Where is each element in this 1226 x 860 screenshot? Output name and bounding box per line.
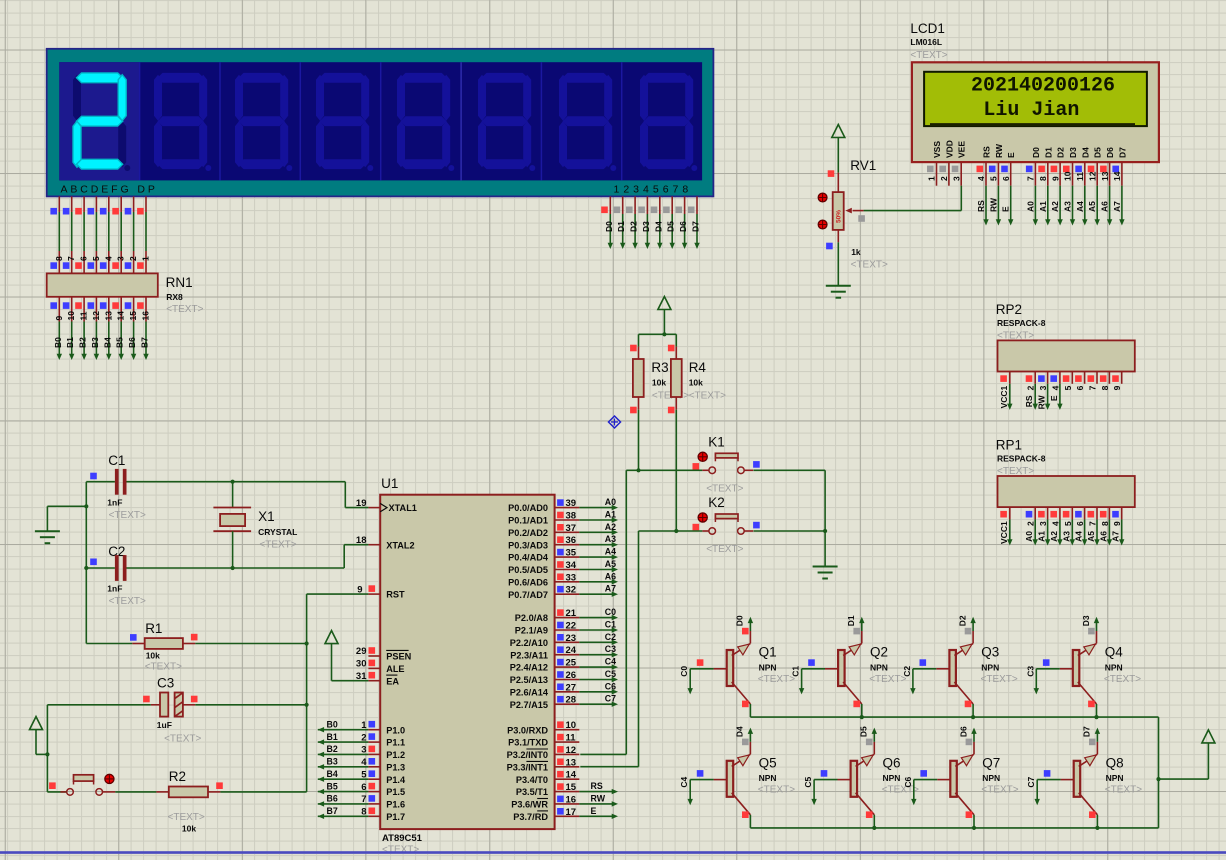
- svg-text:D2: D2: [1056, 147, 1066, 158]
- U1 pin 25 P2.4/A12 wire to net C4: [555, 666, 580, 668]
- wire riser to U1 pin 12 (P3.2/INT0): [625, 470, 627, 754]
- svg-text:RV1: RV1: [850, 158, 876, 173]
- power terminal above R3/R4: [658, 297, 671, 310]
- svg-text:C6: C6: [903, 776, 913, 787]
- svg-text:4: 4: [103, 256, 113, 261]
- Q5 emitter: [732, 793, 751, 815]
- wire K2 right joins ground rail: [754, 530, 826, 532]
- svg-text:B1: B1: [65, 337, 75, 348]
- emitter rail Q5-Q8: [750, 827, 1158, 829]
- svg-text:A1: A1: [1037, 531, 1047, 542]
- svg-text:PSEN: PSEN: [386, 652, 411, 662]
- display data pin D6 wire: [684, 196, 686, 214]
- U1 pin 12 P3.2/INT0: [555, 753, 580, 755]
- sheet border bottom: [0, 851, 1226, 854]
- svg-text:R1: R1: [145, 621, 162, 636]
- svg-text:A3: A3: [605, 534, 616, 544]
- svg-text:A3: A3: [1063, 201, 1073, 212]
- U1 pin 31 EA: [368, 680, 380, 682]
- svg-text:<TEXT>: <TEXT>: [981, 785, 1018, 796]
- RP2 pin 2: [1034, 372, 1036, 384]
- svg-text:<TEXT>: <TEXT>: [166, 304, 203, 315]
- svg-text:A5: A5: [1086, 531, 1096, 542]
- digit 3 decimal point (dim): [286, 165, 292, 171]
- svg-text:1: 1: [141, 256, 151, 261]
- origin marker (blue diamond): [609, 416, 621, 428]
- svg-text:LCD1: LCD1: [910, 21, 945, 36]
- Q8 collector to net D7: [1079, 754, 1098, 766]
- svg-text:2: 2: [361, 732, 366, 743]
- display segment pin E wire to RN1: [108, 196, 110, 212]
- RP1 pin 7 wire: [1096, 519, 1098, 542]
- svg-text:D1: D1: [616, 221, 626, 232]
- RP1 pin 2 wire: [1034, 519, 1036, 542]
- svg-text:AT89C51: AT89C51: [382, 833, 423, 844]
- svg-text:37: 37: [566, 523, 577, 534]
- svg-text:D4: D4: [735, 726, 745, 737]
- svg-text:A0: A0: [1024, 531, 1034, 542]
- svg-text:NPN: NPN: [759, 773, 777, 783]
- RP2 pin 7: [1096, 372, 1098, 384]
- ground tap from capacitor rail: [85, 482, 87, 644]
- U1 pin 39 P0.0/AD0 wire to net A0: [555, 507, 580, 509]
- svg-text:A5: A5: [605, 559, 616, 569]
- K2 contacts: [709, 528, 716, 535]
- svg-text:8: 8: [54, 256, 64, 261]
- svg-text:15: 15: [566, 782, 577, 793]
- Q7 emitter: [955, 793, 974, 815]
- svg-text:1nF: 1nF: [107, 584, 122, 594]
- svg-text:P3.4/T0: P3.4/T0: [516, 775, 548, 785]
- svg-text:7: 7: [1088, 385, 1098, 390]
- Q3 emitter: [954, 682, 973, 704]
- svg-text:B5: B5: [327, 781, 338, 791]
- svg-text:D4: D4: [1080, 147, 1090, 158]
- svg-text:A0: A0: [605, 497, 616, 507]
- svg-text:A5: A5: [1087, 201, 1097, 212]
- LCD pin RS wire to net RS: [985, 186, 987, 222]
- svg-text:<TEXT>: <TEXT>: [259, 540, 296, 551]
- U1 pin 22 P2.1/A9 wire to net C1: [555, 629, 580, 631]
- svg-text:P2.2/A10: P2.2/A10: [510, 638, 548, 648]
- svg-text:D3: D3: [641, 221, 651, 232]
- svg-text:E: E: [1001, 206, 1011, 212]
- RP1 pin 9: [1121, 507, 1123, 519]
- svg-text:50%: 50%: [836, 210, 843, 223]
- svg-text:A4: A4: [605, 547, 616, 557]
- RP1 pin 7: [1096, 507, 1098, 519]
- svg-text:P1.2: P1.2: [386, 750, 405, 760]
- RP2 pin 4 wire: [1059, 384, 1061, 407]
- svg-text:VSS: VSS: [932, 141, 942, 158]
- svg-text:10k: 10k: [652, 378, 666, 388]
- svg-text:11: 11: [1075, 172, 1085, 181]
- wire C2 right plate to XTAL2: [127, 567, 345, 569]
- transistor Q5 NPN: [727, 761, 734, 797]
- svg-text:U1: U1: [381, 476, 398, 491]
- svg-text:C4: C4: [679, 776, 689, 787]
- Q4 emitter: [1078, 682, 1097, 704]
- digit 2 dim "8": [158, 73, 204, 83]
- RP2 pin 1: [1009, 372, 1011, 384]
- svg-text:Q3: Q3: [981, 645, 999, 660]
- RV1 adjustment knob top: [818, 193, 827, 202]
- svg-text:4: 4: [1050, 521, 1060, 526]
- U1 pin 7 P1.6 wire from net B6: [368, 803, 380, 805]
- Q6 emitter: [856, 793, 875, 815]
- svg-text:10: 10: [1063, 171, 1073, 181]
- svg-text:RS: RS: [976, 200, 986, 212]
- RV1 wiper arrow: [845, 208, 851, 214]
- svg-text:P0.7/AD7: P0.7/AD7: [508, 590, 548, 600]
- wire riser to U1 pin 13 (P3.3/INT1): [638, 531, 640, 767]
- RN1 bottom pin 14 wire to net B5: [120, 297, 122, 322]
- svg-text:P3.3/INT1: P3.3/INT1: [507, 762, 548, 772]
- svg-text:B7: B7: [327, 806, 338, 816]
- svg-text:Q8: Q8: [1106, 755, 1124, 770]
- svg-text:D4: D4: [653, 221, 663, 232]
- svg-text:<TEXT>: <TEXT>: [109, 596, 146, 607]
- LCD pin D1 wire to net A1: [1047, 186, 1049, 222]
- svg-text:8: 8: [1100, 385, 1110, 390]
- svg-text:13: 13: [566, 757, 577, 768]
- U1 pin 21 P2.0/A8 wire to net C0: [555, 617, 580, 619]
- svg-text:14: 14: [566, 770, 577, 781]
- RP2 pin 3 wire: [1047, 384, 1049, 407]
- svg-text:P2.7/A15: P2.7/A15: [510, 700, 548, 710]
- RP1 pin 6 wire: [1084, 519, 1086, 542]
- U1 pin 15 P3.5/T1: [555, 791, 580, 793]
- display data pin D4 wire: [659, 196, 661, 214]
- U1 pin 4 P1.3 wire from net B3: [368, 766, 380, 768]
- svg-text:D1: D1: [1043, 147, 1053, 158]
- Q5 base wire from net C4: [714, 779, 727, 781]
- svg-text:3: 3: [1038, 385, 1048, 390]
- svg-text:A7: A7: [605, 584, 616, 594]
- Q3 base wire from net C2: [936, 668, 949, 670]
- resistor R4 10k: [675, 347, 677, 359]
- Q8 base wire from net C7: [1061, 779, 1074, 781]
- ground symbol below K2: [813, 566, 838, 568]
- U1 pin 3 P1.2 wire from net B2: [368, 753, 380, 755]
- svg-text:12: 12: [1087, 171, 1097, 181]
- Q8 emitter: [1079, 793, 1098, 815]
- Q4 collector to net D3: [1078, 643, 1097, 655]
- svg-text:P3.1/TXD: P3.1/TXD: [508, 738, 548, 748]
- Q2 collector to net D1: [843, 643, 862, 655]
- display segment pin F wire to RN1: [120, 196, 122, 212]
- wire C3 left down to reset button: [47, 704, 150, 706]
- wire K2 left to pin13 riser: [639, 530, 703, 532]
- svg-text:R3: R3: [651, 360, 668, 375]
- svg-text:NPN: NPN: [870, 662, 888, 672]
- U1 pin 8 P1.7 wire from net B7: [368, 815, 380, 817]
- svg-text:ABCDEFG DP: ABCDEFG DP: [61, 183, 158, 195]
- LCD screen: [924, 72, 1147, 126]
- svg-text:6: 6: [79, 256, 89, 261]
- svg-text:<TEXT>: <TEXT>: [981, 674, 1018, 685]
- svg-text:P3.7/RD: P3.7/RD: [513, 812, 548, 822]
- RP1 pin 5: [1071, 507, 1073, 519]
- RP1 pin 5 wire: [1071, 519, 1073, 542]
- svg-text:A2: A2: [1049, 531, 1059, 542]
- svg-text:1k: 1k: [851, 247, 861, 257]
- wire XTAL2 stub: [344, 544, 368, 546]
- svg-text:A3: A3: [1061, 531, 1071, 542]
- svg-text:P1.6: P1.6: [386, 800, 405, 810]
- svg-text:P0.5/AD5: P0.5/AD5: [508, 565, 548, 575]
- svg-text:<TEXT>: <TEXT>: [1104, 674, 1141, 685]
- U1 pin 18 XTAL2: [368, 544, 380, 546]
- svg-text:RW: RW: [591, 793, 606, 803]
- RP2 pin 8: [1108, 372, 1110, 384]
- svg-text:9: 9: [357, 584, 362, 595]
- digit 8 dim "8": [644, 73, 690, 83]
- svg-text:13: 13: [1100, 171, 1110, 181]
- display data pin D2 wire: [634, 196, 636, 214]
- svg-text:VCC1: VCC1: [999, 521, 1009, 544]
- RST rail vertical: [306, 594, 308, 792]
- svg-text:A0: A0: [1025, 201, 1035, 212]
- display data pin D0 wire: [609, 196, 611, 214]
- RP1 pin 4 wire: [1059, 519, 1061, 542]
- svg-text:NPN: NPN: [1106, 773, 1124, 783]
- svg-text:1uF: 1uF: [157, 720, 172, 730]
- digit 8 decimal point (dim): [691, 165, 697, 171]
- Q6 collector to net D5: [856, 754, 875, 766]
- svg-text:B5: B5: [115, 337, 125, 348]
- digit 2 decimal point (dim): [205, 165, 211, 171]
- svg-text:10k: 10k: [689, 378, 703, 388]
- U1 pin 11 P3.1/TXD: [555, 741, 580, 743]
- svg-text:9: 9: [1112, 385, 1122, 390]
- svg-text:P2.4/A12: P2.4/A12: [510, 663, 548, 673]
- svg-text:B4: B4: [102, 337, 112, 348]
- display segment pin C wire to RN1: [83, 196, 85, 212]
- LCD pin E wire to net E: [1010, 186, 1012, 222]
- svg-text:P3.0/RXD: P3.0/RXD: [507, 725, 548, 735]
- svg-text:11: 11: [79, 311, 89, 320]
- display digit cell separators: [139, 62, 141, 180]
- svg-text:E: E: [591, 806, 597, 816]
- svg-text:NPN: NPN: [883, 773, 901, 783]
- svg-text:<TEXT>: <TEXT>: [145, 662, 182, 673]
- digit 1 showing lit "2": [73, 75, 81, 121]
- svg-text:36: 36: [566, 535, 577, 546]
- power terminal lower-left: [30, 717, 43, 730]
- svg-text:P1.7: P1.7: [386, 812, 405, 822]
- svg-text:16: 16: [566, 794, 577, 805]
- LCD pin D7 wire to net A7: [1121, 186, 1123, 222]
- svg-text:14: 14: [1112, 171, 1122, 181]
- active digit cell background: [59, 62, 139, 180]
- svg-text:3: 3: [116, 256, 126, 261]
- wire R2 right to RST rail: [220, 791, 306, 793]
- Q7 base wire from net C6: [937, 779, 950, 781]
- svg-text:29: 29: [356, 646, 367, 657]
- svg-text:3: 3: [1038, 521, 1048, 526]
- svg-text:<TEXT>: <TEXT>: [164, 734, 201, 745]
- svg-text:4: 4: [361, 757, 367, 768]
- resistor network RN1 RX8: [47, 273, 158, 296]
- LCD pin D0 wire to net A0: [1034, 186, 1036, 222]
- svg-text:RW: RW: [988, 197, 998, 212]
- Q2 emitter: [843, 682, 862, 704]
- svg-text:P1.3: P1.3: [386, 762, 405, 772]
- svg-text:C7: C7: [605, 694, 616, 704]
- svg-text:P2.6/A14: P2.6/A14: [510, 687, 549, 697]
- RP2 pin 6: [1084, 372, 1086, 384]
- svg-text:B1: B1: [327, 732, 338, 742]
- wire XTAL1 stub: [345, 507, 368, 509]
- RV1 adjustment knob bottom: [818, 220, 827, 229]
- svg-text:P1.5: P1.5: [386, 787, 405, 797]
- svg-text:10k: 10k: [146, 651, 160, 661]
- wire RST rail to U1 pin 9: [307, 593, 369, 595]
- svg-text:LM016L: LM016L: [910, 37, 942, 47]
- U1 pin 24 P2.3/A11 wire to net C3: [555, 654, 580, 656]
- svg-text:26: 26: [566, 670, 577, 681]
- digit 7 dim "8": [563, 73, 609, 83]
- svg-text:A1: A1: [605, 510, 616, 520]
- svg-text:D6: D6: [958, 726, 968, 737]
- RP1 pin 3: [1047, 507, 1049, 519]
- svg-text:C0: C0: [605, 607, 616, 617]
- power terminal above RV1: [832, 125, 845, 138]
- LCD pin D3 wire to net A3: [1072, 186, 1074, 222]
- digit 7 decimal point (dim): [610, 165, 616, 171]
- Q7 collector to net D6: [955, 754, 974, 766]
- svg-text:35: 35: [566, 548, 577, 559]
- Q1 emitter: [732, 682, 751, 704]
- svg-text:6: 6: [361, 782, 366, 793]
- svg-text:P2.5/A13: P2.5/A13: [510, 675, 548, 685]
- svg-text:RESPACK-8: RESPACK-8: [997, 318, 1046, 328]
- svg-text:17: 17: [566, 807, 577, 818]
- rail riser right side: [1158, 717, 1160, 828]
- U1 pin 5 P1.4 wire from net B4: [368, 778, 380, 780]
- svg-text:1: 1: [361, 720, 367, 731]
- display data pin D1 wire: [622, 196, 624, 214]
- RP1 pin 8: [1108, 507, 1110, 519]
- svg-text:12345678: 12345678: [614, 183, 693, 195]
- power terminal to EA: [325, 631, 338, 644]
- svg-text:21: 21: [566, 608, 577, 619]
- svg-text:34: 34: [566, 560, 577, 571]
- svg-text:P0.3/AD3: P0.3/AD3: [508, 540, 548, 550]
- svg-text:P3.5/T1: P3.5/T1: [516, 787, 548, 797]
- svg-text:RN1: RN1: [166, 275, 193, 290]
- display segment pin B wire to RN1: [71, 196, 73, 212]
- svg-text:16: 16: [141, 311, 151, 321]
- U1 pin 32 P0.7/AD7 wire to net A7: [555, 593, 580, 595]
- U1 pin 28 P2.7/A15 wire to net C7: [555, 703, 580, 705]
- Q5 collector to net D4: [732, 754, 751, 766]
- svg-text:D0: D0: [1031, 147, 1041, 158]
- svg-text:7: 7: [66, 256, 76, 261]
- svg-text:24: 24: [566, 645, 577, 656]
- U1 pin 35 P0.4/AD4 wire to net A4: [555, 556, 580, 558]
- svg-text:RP1: RP1: [996, 437, 1022, 452]
- svg-text:C1: C1: [605, 620, 616, 630]
- svg-text:8: 8: [1038, 176, 1048, 181]
- resistor R3 10k: [638, 347, 640, 359]
- svg-text:7: 7: [1026, 176, 1036, 181]
- svg-text:<TEXT>: <TEXT>: [109, 510, 146, 521]
- RN1 bottom pin 11 wire to net B2: [83, 297, 85, 322]
- svg-text:C0: C0: [679, 666, 689, 677]
- svg-text:<TEXT>: <TEXT>: [758, 674, 795, 685]
- U1 pin 27 P2.6/A14 wire to net C6: [555, 691, 580, 693]
- svg-text:P1.0: P1.0: [386, 725, 405, 735]
- U1 pin 17 P3.7/RD: [555, 815, 580, 817]
- svg-text:D3: D3: [1081, 615, 1091, 626]
- RP2 pin 9: [1121, 372, 1123, 384]
- svg-text:6: 6: [1075, 521, 1085, 526]
- wire C1 right plate to XTAL1: [127, 481, 346, 483]
- svg-text:7: 7: [361, 794, 366, 805]
- svg-text:4: 4: [976, 176, 986, 181]
- svg-text:Liu Jian: Liu Jian: [983, 99, 1079, 122]
- svg-text:<TEXT>: <TEXT>: [1105, 785, 1142, 796]
- svg-text:3: 3: [361, 745, 366, 756]
- svg-text:5: 5: [1063, 385, 1073, 390]
- svg-text:39: 39: [566, 498, 577, 509]
- svg-text:5: 5: [1063, 521, 1073, 526]
- svg-text:P2.3/A11: P2.3/A11: [510, 650, 548, 660]
- emitter rail Q1-Q4: [750, 716, 1158, 718]
- svg-text:C5: C5: [605, 669, 616, 679]
- wire C3 right to RST rail: [195, 704, 306, 706]
- svg-text:NPN: NPN: [1105, 662, 1123, 672]
- digit 5 decimal point (dim): [448, 165, 454, 171]
- U1 pin 16 wire to net RW: [579, 803, 614, 805]
- U1 pin 1 P1.0 wire from net B0: [368, 729, 380, 731]
- svg-text:6: 6: [1001, 176, 1011, 181]
- svg-text:12: 12: [91, 311, 101, 321]
- LCD cursor underline row: [930, 123, 1135, 125]
- svg-text:P0.2/AD2: P0.2/AD2: [508, 528, 548, 538]
- RP2 pin 1 wire: [1009, 384, 1011, 407]
- svg-text:C4: C4: [605, 657, 616, 667]
- svg-text:C2: C2: [902, 666, 912, 677]
- RP1 pin 4: [1059, 507, 1061, 519]
- transistor Q1 NPN: [727, 650, 734, 686]
- digit 6 decimal point (dim): [529, 165, 535, 171]
- svg-text:RS: RS: [1024, 395, 1034, 407]
- svg-text:C3: C3: [605, 644, 616, 654]
- U1 pin 23 P2.2/A10 wire to net C2: [555, 641, 580, 643]
- ground symbol left of C1: [35, 530, 60, 532]
- U1 pin 16 P3.6/WR: [555, 803, 580, 805]
- RN1 bottom pin 12 wire to net B3: [95, 297, 97, 322]
- wire K1 right to ground rail: [754, 469, 826, 471]
- svg-text:K2: K2: [708, 495, 725, 510]
- svg-text:A6: A6: [1098, 531, 1108, 542]
- svg-text:CRYSTAL: CRYSTAL: [258, 527, 297, 537]
- display segment pin A wire to RN1: [58, 196, 60, 212]
- svg-text:R4: R4: [689, 360, 707, 375]
- svg-text:D6: D6: [1105, 147, 1115, 158]
- svg-text:D3: D3: [1068, 147, 1078, 158]
- U1 pin 14 P3.4/T0: [555, 778, 580, 780]
- crystal X1: [232, 482, 234, 508]
- svg-text:D7: D7: [1117, 147, 1127, 158]
- U1 pin 29 PSEN: [368, 655, 380, 657]
- U1 pin 13 P3.3/INT1: [555, 766, 580, 768]
- svg-text:B0: B0: [53, 337, 63, 348]
- svg-text:C6: C6: [605, 681, 616, 691]
